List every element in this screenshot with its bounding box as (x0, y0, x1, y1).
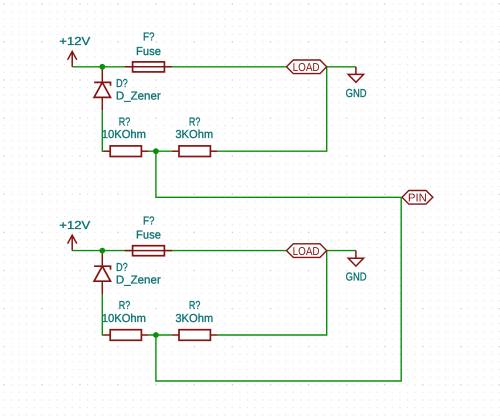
zener diode D1 top pin (101, 67, 103, 83)
wire: R2 right up to LOAD line (218, 67, 327, 151)
global label LOAD (287, 60, 327, 74)
junction node at +12V tap (2) (99, 248, 105, 254)
svg-text:R?: R? (119, 116, 131, 128)
resistor R4 body (179, 330, 210, 341)
junction node between R1 R2 (153, 148, 159, 154)
svg-text:10KOhm: 10KOhm (102, 313, 146, 325)
svg-text:D?: D? (116, 78, 128, 90)
wire: zener down to resistor row (102, 110, 103, 151)
zener diode D2 triangle (94, 266, 110, 281)
svg-text:R?: R? (189, 300, 201, 312)
svg-text:F?: F? (143, 216, 155, 228)
zener diode D1 cathode bar (94, 82, 110, 85)
svg-text:PIN: PIN (408, 193, 427, 205)
wire: junction1 down to PIN row (156, 151, 401, 197)
ground GND (348, 67, 363, 83)
resistor R1 pins (103, 150, 110, 152)
wire: PIN down and across bottom (156, 197, 401, 381)
fuse F2 pins (125, 250, 133, 252)
wire: LOAD to GND (327, 66, 356, 68)
svg-text:D_Zener: D_Zener (116, 91, 161, 103)
svg-text:R?: R? (189, 116, 201, 128)
zener diode D1 triangle (94, 82, 110, 97)
svg-text:3KOhm: 3KOhm (175, 129, 213, 141)
zener diode D2 top pin (101, 251, 103, 267)
zener diode D2 bottom pin (101, 281, 103, 294)
svg-text:LOAD: LOAD (293, 62, 320, 74)
zener diode D2 cathode bar (94, 266, 110, 269)
fuse F1 pins (125, 66, 133, 68)
wire: +12V to LOAD horizontal (72, 66, 286, 68)
resistor R3 body (110, 330, 141, 341)
svg-text:R?: R? (119, 300, 131, 312)
resistor R2 pins (172, 150, 179, 152)
svg-text:Fuse: Fuse (136, 46, 161, 58)
wire: +12V to LOAD horizontal (2) (72, 250, 286, 252)
svg-text:F?: F? (143, 32, 155, 44)
wire: R3 to R4 (149, 334, 172, 336)
junction node at +12V tap (99, 64, 105, 70)
resistor R3 pins (103, 334, 110, 336)
svg-text:3KOhm: 3KOhm (175, 313, 213, 325)
svg-text:Fuse: Fuse (136, 230, 161, 242)
resistor R4 pins (172, 334, 179, 336)
wire: R1 to R2 (149, 150, 172, 152)
svg-text:LOAD: LOAD (293, 246, 320, 258)
wire: LOAD to GND (2) (327, 250, 356, 252)
power symbol +12V arrow (68, 51, 77, 66)
svg-text:GND: GND (346, 272, 367, 284)
svg-text:D_Zener: D_Zener (116, 275, 161, 287)
fuse F2 body (133, 246, 165, 256)
global label PIN (402, 191, 433, 205)
junction node between R3 R4 (153, 332, 159, 338)
svg-text:+12V: +12V (59, 36, 90, 48)
global label LOAD (2) (287, 244, 327, 258)
wire: zener down to resistor row (2) (102, 294, 103, 335)
resistor R1 body (110, 146, 141, 157)
svg-text:D?: D? (116, 262, 128, 274)
svg-text:10KOhm: 10KOhm (102, 129, 146, 141)
wire: R4 right up to LOAD line (2) (218, 251, 327, 335)
ground GND (2) (348, 251, 363, 267)
resistor R2 body (179, 146, 210, 157)
svg-text:GND: GND (346, 88, 367, 100)
svg-text:+12V: +12V (59, 220, 90, 232)
zener diode D1 bottom pin (101, 97, 103, 110)
power symbol +12V arrow (2) (68, 235, 77, 250)
fuse F1 body (133, 62, 165, 72)
